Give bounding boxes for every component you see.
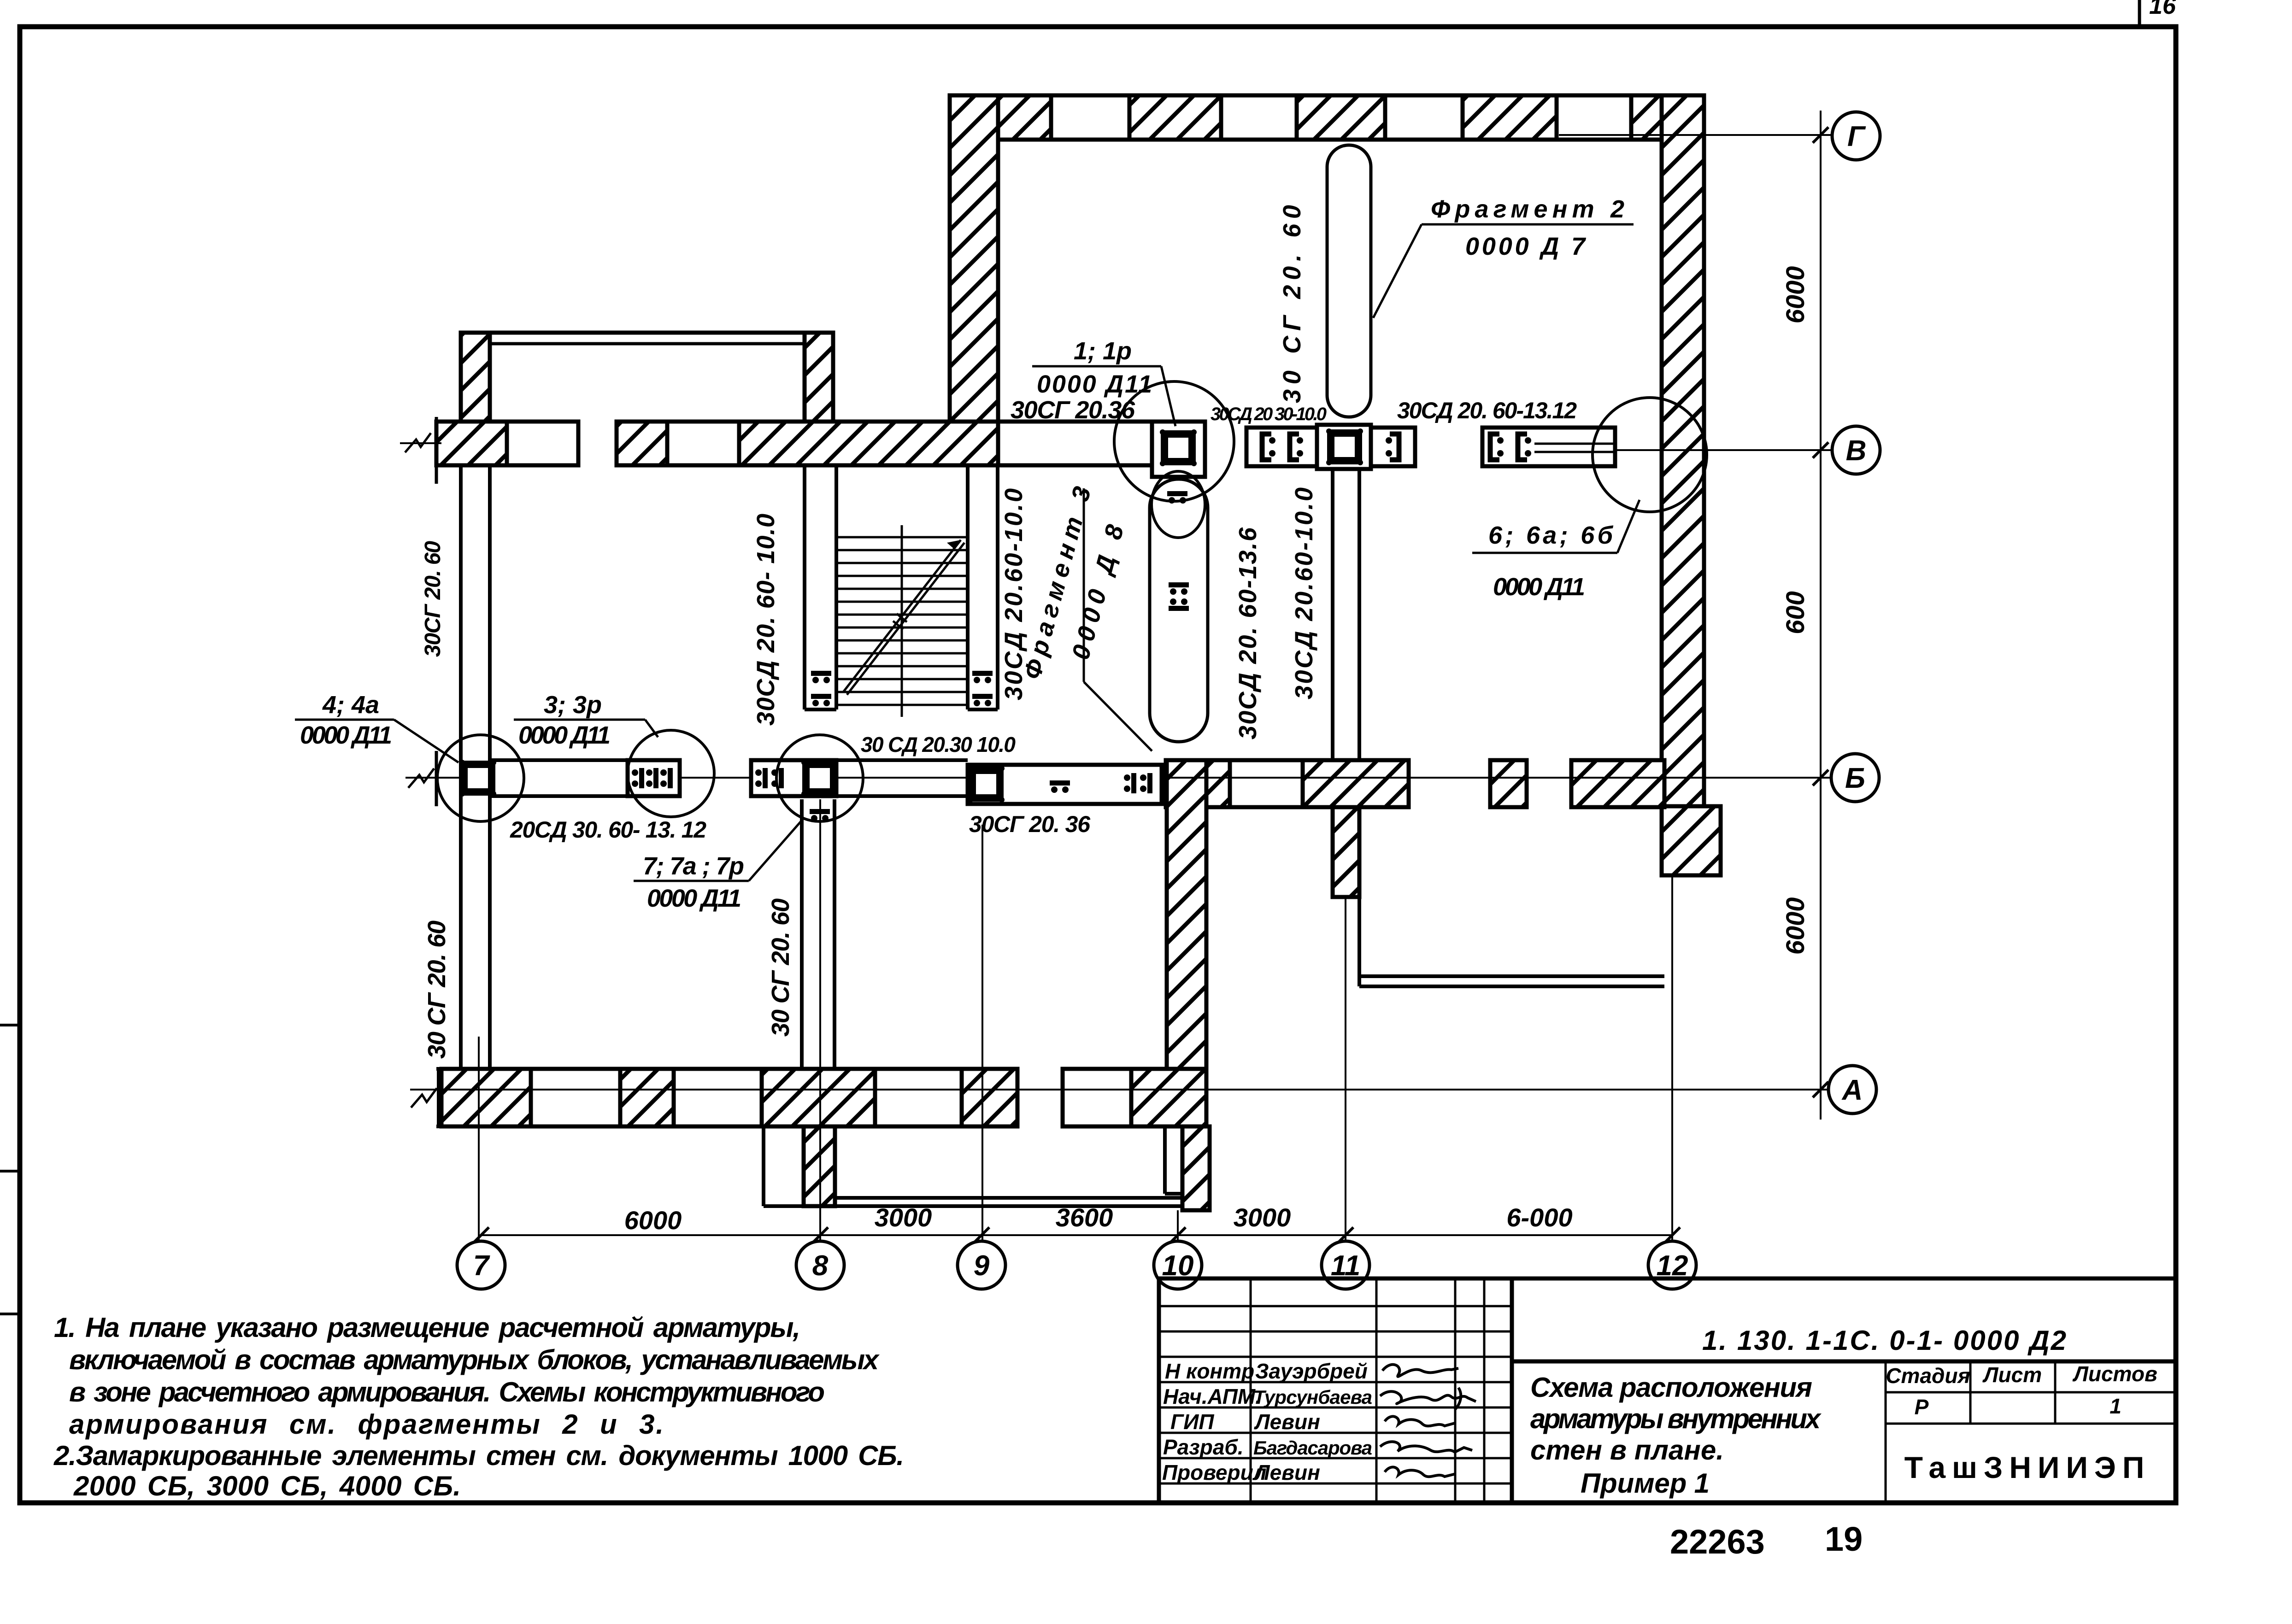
svg-text:ТашЗНИИЭП: ТашЗНИИЭП	[1904, 1450, 2151, 1484]
svg-text:7; 7а ; 7р: 7; 7а ; 7р	[643, 852, 744, 880]
svg-text:19: 19	[1825, 1520, 1863, 1558]
svg-text:1. 130. 1-1С. 0-1- 0000 Д2: 1. 130. 1-1С. 0-1- 0000 Д2	[1702, 1325, 2066, 1356]
svg-text:3600: 3600	[1056, 1203, 1113, 1232]
svg-text:Схема расположения: Схема расположения	[1530, 1372, 1812, 1403]
svg-text:30СД 20. 60-13.12: 30СД 20. 60-13.12	[1397, 398, 1577, 423]
svg-text:0000 Д11: 0000 Д11	[300, 721, 392, 749]
svg-text:Р: Р	[1915, 1395, 1929, 1419]
svg-text:Пример 1: Пример 1	[1581, 1468, 1710, 1499]
svg-text:3; 3р: 3; 3р	[544, 691, 602, 719]
svg-text:Левин: Левин	[1254, 1460, 1320, 1484]
svg-text:ГИП: ГИП	[1170, 1410, 1214, 1434]
svg-text:Левин: Левин	[1254, 1410, 1320, 1434]
svg-text:6000: 6000	[624, 1206, 682, 1235]
svg-text:6000: 6000	[1781, 897, 1810, 955]
svg-text:3000: 3000	[1234, 1203, 1291, 1232]
svg-text:16: 16	[2149, 0, 2176, 19]
svg-text:0000 Д11: 0000 Д11	[1037, 370, 1152, 398]
svg-text:Нач.АПМ.: Нач.АПМ.	[1163, 1384, 1261, 1408]
svg-text:Багдасарова: Багдасарова	[1253, 1437, 1372, 1459]
svg-text:1. На плане указано разме: 1. На плане указано размещение расчетной…	[54, 1312, 800, 1343]
svg-text:Турсунбаева: Турсунбаева	[1253, 1386, 1372, 1408]
svg-text:армирования см. фрагменты: армирования см. фрагменты 2 и 3.	[69, 1409, 664, 1440]
svg-text:включаемой в состав арма: включаемой в состав арматурных блоков, у…	[69, 1344, 880, 1375]
svg-text:0000 Д11: 0000 Д11	[1493, 573, 1585, 601]
svg-text:1; 1р: 1; 1р	[1074, 337, 1132, 365]
svg-text:Лист: Лист	[1982, 1363, 2042, 1387]
svg-text:0000 Д11: 0000 Д11	[647, 885, 741, 912]
svg-text:30СГ 20. 36: 30СГ 20. 36	[969, 811, 1091, 837]
svg-text:3000: 3000	[875, 1203, 932, 1232]
svg-text:30 СГ 20. 60: 30 СГ 20. 60	[423, 920, 451, 1059]
svg-text:4; 4а: 4; 4а	[322, 691, 379, 719]
svg-text:20СД 30. 60- 13. 12: 20СД 30. 60- 13. 12	[510, 817, 706, 843]
svg-text:0000 Д 7: 0000 Д 7	[1465, 233, 1587, 260]
svg-text:В: В	[1846, 435, 1867, 467]
svg-text:Проверил: Проверил	[1162, 1460, 1266, 1484]
svg-text:30 СГ 20. 60: 30 СГ 20. 60	[767, 898, 794, 1037]
svg-text:600: 600	[1781, 591, 1810, 634]
svg-text:30 СД 20.30 10.0: 30 СД 20.30 10.0	[861, 733, 1016, 756]
svg-text:9: 9	[974, 1250, 990, 1282]
svg-text:8: 8	[812, 1250, 829, 1282]
svg-text:30СД 20 30-10.0: 30СД 20 30-10.0	[1211, 404, 1327, 424]
svg-text:А: А	[1841, 1074, 1863, 1106]
svg-text:Стадия: Стадия	[1886, 1364, 1970, 1388]
svg-text:30СД 20.60-10.0: 30СД 20.60-10.0	[1290, 487, 1318, 699]
svg-text:стен в плане.: стен в плане.	[1530, 1435, 1724, 1466]
svg-text:0000 Д11: 0000 Д11	[518, 721, 611, 749]
svg-text:30СД 20. 60-13.6: 30СД 20. 60-13.6	[1234, 527, 1262, 739]
svg-text:Зауэрбрей: Зауэрбрей	[1255, 1359, 1368, 1383]
svg-text:6000: 6000	[1781, 266, 1810, 324]
svg-text:2.Замаркированные элементы: 2.Замаркированные элементы стен см. доку…	[53, 1440, 904, 1471]
svg-text:в зоне расчетного армиров: в зоне расчетного армирования. Схемы кон…	[69, 1377, 825, 1407]
svg-text:7: 7	[473, 1250, 490, 1282]
svg-text:6-000: 6-000	[1506, 1203, 1572, 1232]
svg-text:Листов: Листов	[2072, 1362, 2157, 1386]
svg-text:30СГ 20. 60: 30СГ 20. 60	[421, 541, 445, 657]
svg-text:30 СГ 20. 60: 30 СГ 20. 60	[1278, 205, 1306, 403]
svg-text:1: 1	[2110, 1394, 2122, 1418]
svg-text:Н контр: Н контр	[1165, 1359, 1254, 1383]
svg-text:Б: Б	[1845, 762, 1865, 794]
svg-text:арматуры внутренних: арматуры внутренних	[1530, 1403, 1822, 1434]
svg-text:Г: Г	[1847, 121, 1866, 152]
svg-text:30СД 20. 60- 10.0: 30СД 20. 60- 10.0	[752, 514, 780, 726]
svg-text:Разраб.: Разраб.	[1163, 1435, 1244, 1459]
svg-text:30СГ 20.36: 30СГ 20.36	[1011, 396, 1135, 424]
svg-text:2000 СБ, 3000 СБ, 4000: 2000 СБ, 3000 СБ, 4000 СБ.	[73, 1471, 461, 1501]
svg-text:22263: 22263	[1670, 1523, 1765, 1561]
